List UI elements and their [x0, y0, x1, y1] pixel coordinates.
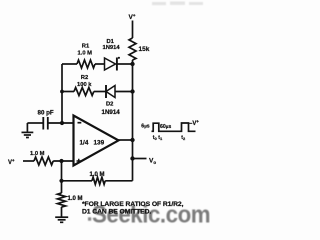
svg-text:1/4: 1/4 — [80, 140, 89, 147]
svg-text:1.0 M: 1.0 M — [30, 151, 45, 157]
svg-text:100 k: 100 k — [77, 82, 92, 88]
svg-text:1.0 M: 1.0 M — [78, 50, 93, 56]
svg-text:1.0 M: 1.0 M — [68, 196, 83, 202]
svg-text:1.0 M: 1.0 M — [90, 172, 105, 178]
svg-text:139: 139 — [94, 140, 105, 147]
svg-text:R2: R2 — [81, 75, 88, 81]
svg-text:D2: D2 — [106, 101, 113, 107]
svg-text:1N914: 1N914 — [103, 45, 121, 51]
svg-text:1N914: 1N914 — [102, 109, 121, 116]
svg-text:R1: R1 — [82, 44, 90, 50]
svg-text:80 pF: 80 pF — [38, 110, 54, 117]
svg-text:D1 CAN BE OMITTED.: D1 CAN BE OMITTED. — [82, 209, 151, 216]
svg-text:15k: 15k — [139, 46, 150, 53]
svg-text:60μs: 60μs — [160, 124, 171, 130]
svg-text:*FOR LARGE RATIOS OF R1/R2,: *FOR LARGE RATIOS OF R1/R2, — [82, 201, 184, 208]
